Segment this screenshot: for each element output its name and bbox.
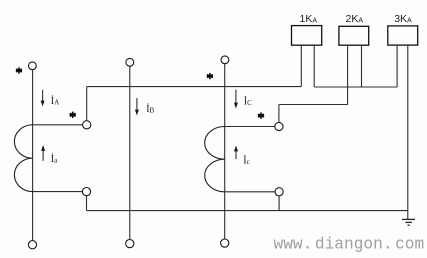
wire phase A vertical bbox=[32, 70, 34, 241]
arrow current IB (down) bbox=[136, 98, 138, 110]
wire common line (relay commons) bbox=[314, 86, 397, 88]
terminal a1 circle bbox=[83, 121, 91, 129]
wire terminal c1 up to bus2 bbox=[278, 105, 280, 123]
wire CT A secondary bottom lead bbox=[33, 191, 83, 193]
wire bus1 (a-phase lead to relay 1KA) bbox=[87, 86, 302, 88]
polarity mark secondary a bbox=[70, 112, 76, 118]
wire 2KA left pin bbox=[347, 45, 349, 104]
terminal a2 circle bbox=[82, 188, 90, 196]
wire 1KA left pin bbox=[300, 45, 302, 86]
terminal C top circle bbox=[221, 56, 229, 64]
wire 1KA right pin bbox=[313, 45, 315, 87]
CT C secondary winding arcs bbox=[205, 127, 225, 192]
wire terminal c2 down to return bbox=[278, 196, 280, 211]
wire 2KA right pin bbox=[361, 45, 363, 87]
wire terminal a2 down to return bbox=[86, 196, 88, 211]
arrow current IC (down) bbox=[235, 90, 237, 104]
polarity mark secondary c bbox=[258, 112, 264, 118]
wire bus2 (c-phase lead to relay 2KA) bbox=[279, 104, 348, 106]
arrow current Ia (up) bbox=[42, 150, 44, 161]
wire 3KA left pin bbox=[396, 45, 398, 87]
svg-text:www.diangon.com: www.diangon.com bbox=[274, 235, 425, 253]
wire phase B vertical bbox=[129, 66, 131, 239]
polarity mark primary C bbox=[207, 73, 213, 79]
arrow current Ic (up) bbox=[235, 151, 237, 159]
relay 3KA box bbox=[388, 26, 418, 45]
ground symbol bbox=[402, 219, 415, 225]
terminal B top circle bbox=[126, 58, 134, 66]
wire CT C secondary top lead bbox=[225, 126, 275, 128]
terminal c1 circle bbox=[275, 122, 283, 130]
arrow current IA (down) bbox=[42, 90, 44, 102]
relay 1KA box bbox=[292, 26, 322, 46]
polarity mark primary A bbox=[16, 67, 22, 73]
terminal A bottom circle bbox=[28, 241, 36, 249]
wire CT C secondary bottom lead bbox=[225, 191, 275, 193]
terminal A top circle bbox=[29, 62, 37, 70]
terminal B bottom circle bbox=[126, 240, 134, 248]
terminal c2 circle bbox=[275, 188, 283, 196]
CT A secondary winding arcs bbox=[14, 125, 32, 192]
wire terminal a1 up to bus1 bbox=[86, 87, 88, 121]
wire 3KA right pin to ground bbox=[407, 45, 409, 219]
terminal C bottom circle bbox=[221, 239, 229, 247]
wire phase C vertical bbox=[224, 64, 226, 239]
relay 2KA box bbox=[339, 26, 369, 45]
wire return line (neutral to ground) bbox=[87, 210, 408, 212]
wire CT A secondary top lead bbox=[33, 124, 83, 126]
